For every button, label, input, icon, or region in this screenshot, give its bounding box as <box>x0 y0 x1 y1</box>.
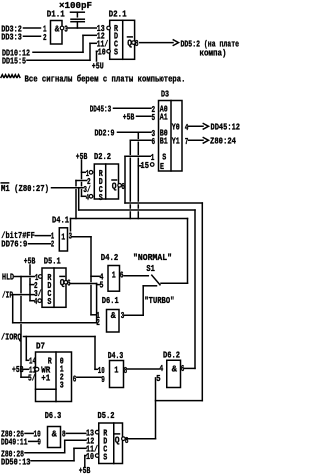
svg-text:1: 1 <box>114 364 118 375</box>
svg-text:Q: Q <box>112 181 117 192</box>
svg-text:5/: 5/ <box>28 372 36 383</box>
svg-text:Все сигналы берем с платы комп: Все сигналы берем с платы компьютера. <box>25 73 186 84</box>
svg-text:Q: Q <box>127 38 132 49</box>
svg-text:2: 2 <box>96 317 100 328</box>
svg-text:6: 6 <box>73 373 77 384</box>
svg-text:1: 1 <box>151 152 155 163</box>
svg-text:6: 6 <box>152 136 156 147</box>
svg-text:8: 8 <box>124 365 128 376</box>
svg-text:×100pF: ×100pF <box>59 0 92 11</box>
svg-text:/IORQ: /IORQ <box>1 331 22 342</box>
svg-text:1: 1 <box>112 269 116 280</box>
svg-text:9: 9 <box>101 374 105 385</box>
svg-text:6: 6 <box>67 277 71 288</box>
svg-text:"TURBO": "TURBO" <box>144 295 174 306</box>
svg-text:S: S <box>103 451 107 462</box>
svg-text:компа): компа) <box>200 48 227 59</box>
svg-text:7: 7 <box>185 136 189 147</box>
svg-text:8: 8 <box>125 435 129 446</box>
svg-text:3: 3 <box>69 231 73 242</box>
svg-text:5: 5 <box>100 280 104 291</box>
svg-text:S1: S1 <box>146 263 155 274</box>
svg-text:D4.2: D4.2 <box>101 252 119 263</box>
svg-text:10: 10 <box>86 451 94 462</box>
svg-text:10: 10 <box>98 47 106 58</box>
svg-text:D2.2: D2.2 <box>94 151 111 162</box>
svg-text:2: 2 <box>43 32 47 43</box>
svg-text:D4.3: D4.3 <box>108 350 124 361</box>
svg-text:DD50:13: DD50:13 <box>1 457 31 468</box>
svg-text:D6.1: D6.1 <box>102 295 119 306</box>
svg-text:4: 4 <box>34 296 37 307</box>
svg-text:DD15:5: DD15:5 <box>2 56 26 67</box>
svg-text:D2.1: D2.1 <box>109 9 127 20</box>
svg-text:&: & <box>111 310 116 321</box>
svg-text:D4.1: D4.1 <box>52 214 69 225</box>
svg-text:+5B: +5B <box>123 112 135 123</box>
svg-text:3: 3 <box>60 379 64 390</box>
svg-text:Y1: Y1 <box>172 136 180 147</box>
svg-text:6: 6 <box>181 363 185 374</box>
svg-text:+5U: +5U <box>92 61 104 72</box>
svg-text:D6.3: D6.3 <box>45 410 62 421</box>
svg-text:/IP: /IP <box>2 290 13 301</box>
svg-text:M1 (Z80:27): M1 (Z80:27) <box>1 183 49 194</box>
svg-text:3: 3 <box>64 24 68 35</box>
svg-text:DD76:9: DD76:9 <box>1 238 27 249</box>
svg-text:"NORMAL": "NORMAL" <box>133 252 172 263</box>
svg-text:DD45:12: DD45:12 <box>211 122 241 133</box>
svg-text:DD49:11: DD49:11 <box>1 436 28 447</box>
svg-text:A1: A1 <box>160 111 168 122</box>
svg-text:+5B: +5B <box>24 255 36 266</box>
svg-text:6: 6 <box>121 181 125 192</box>
svg-text:4: 4 <box>86 192 89 203</box>
svg-text:Q: Q <box>115 435 120 446</box>
svg-text:+5B: +5B <box>79 465 91 476</box>
svg-text:15: 15 <box>141 160 150 171</box>
svg-text:&: & <box>172 364 177 375</box>
svg-text:&: & <box>55 24 60 35</box>
svg-text:S: S <box>114 47 118 58</box>
svg-text:4: 4 <box>185 122 189 133</box>
svg-text:3: 3 <box>121 310 125 321</box>
svg-text:S: S <box>47 296 51 307</box>
svg-text:&: & <box>52 428 57 439</box>
svg-text:D5.1: D5.1 <box>44 255 61 266</box>
svg-text:9: 9 <box>38 437 42 448</box>
svg-text:Y0: Y0 <box>172 122 180 133</box>
svg-text:DD45:3: DD45:3 <box>90 103 112 114</box>
svg-text:DD2:9: DD2:9 <box>95 128 115 139</box>
svg-text:D3: D3 <box>161 89 169 100</box>
svg-text:1: 1 <box>61 231 65 242</box>
svg-text:S: S <box>99 192 103 203</box>
svg-text:+5B: +5B <box>12 364 24 375</box>
svg-text:8: 8 <box>135 38 139 49</box>
svg-text:5: 5 <box>152 112 156 123</box>
svg-text:E: E <box>160 161 164 172</box>
svg-text:Q: Q <box>60 277 65 288</box>
svg-text:D5.2: D5.2 <box>98 410 115 421</box>
svg-text:B1: B1 <box>160 136 168 147</box>
svg-text:D6.2: D6.2 <box>163 349 180 360</box>
svg-text:+1: +1 <box>41 372 50 383</box>
svg-text:+5B: +5B <box>76 151 88 162</box>
svg-text:D7: D7 <box>36 340 45 351</box>
svg-text:5: 5 <box>156 373 161 384</box>
svg-text:6: 6 <box>120 269 124 280</box>
svg-text:Z80:24: Z80:24 <box>210 136 236 147</box>
svg-text:2: 2 <box>51 239 54 250</box>
svg-text:DD3:3: DD3:3 <box>1 32 22 43</box>
svg-text:8: 8 <box>62 429 66 440</box>
svg-text:HLD: HLD <box>2 272 14 283</box>
